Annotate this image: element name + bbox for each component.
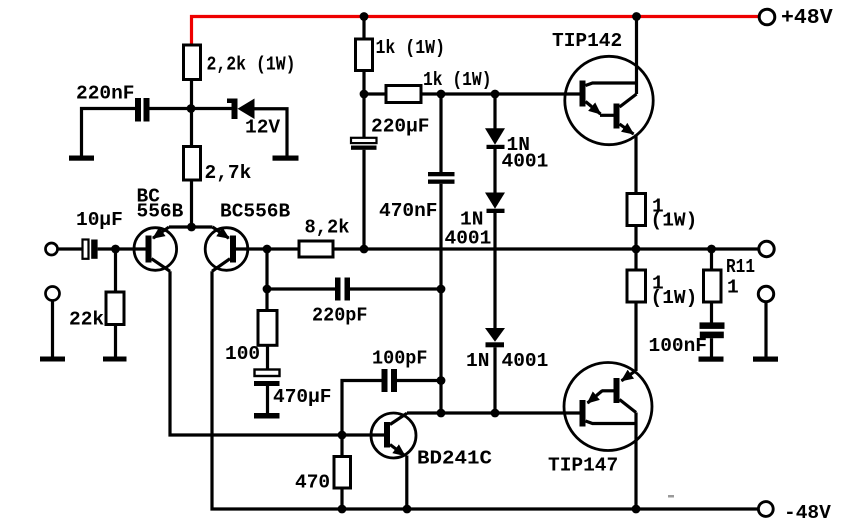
wire D1 to D2 — [493, 149, 496, 193]
wire BD241C collector to bias net — [407, 411, 580, 414]
wire zener to ground — [255, 109, 288, 156]
wire BD241C emitter down — [405, 456, 408, 510]
svg-text:470: 470 — [295, 472, 330, 494]
node output left junction — [632, 245, 641, 254]
ground under 100nF — [699, 357, 724, 362]
svg-text:12V: 12V — [245, 117, 280, 139]
wire terminal to ground — [764, 301, 767, 357]
resistor 1k (1W) vertical — [356, 39, 373, 71]
terminal -48V — [758, 502, 773, 517]
capacitor 470nF — [428, 172, 455, 176]
+48V red supply rail — [192, 17, 760, 46]
artifact dash — [668, 495, 674, 498]
svg-text:TIP147: TIP147 — [548, 455, 618, 477]
node 470 resistor bottom junction — [338, 505, 347, 514]
svg-text:1k (1W): 1k (1W) — [376, 37, 446, 59]
wire 470 resistor bottom — [340, 488, 343, 509]
svg-text:220nF: 220nF — [76, 83, 135, 105]
svg-text:(1W): (1W) — [651, 287, 698, 309]
node input junction — [111, 245, 120, 254]
svg-text:470µF: 470µF — [273, 386, 332, 408]
svg-text:BC556B: BC556B — [220, 201, 291, 223]
node emitter tail junction — [187, 223, 196, 232]
wire 470uF to ground — [266, 386, 269, 413]
wire TIP142 emitter — [634, 135, 637, 194]
svg-text:1k (1W): 1k (1W) — [423, 69, 492, 91]
wire feedback column — [265, 249, 268, 311]
transistor Q1 BC556B — [134, 228, 177, 271]
node 220uF junction — [360, 245, 369, 254]
wire 100 to 470uF — [266, 345, 269, 370]
terminal +48V — [759, 9, 775, 25]
wire TIP142 collector — [635, 17, 638, 95]
svg-text:+48V: +48V — [781, 6, 833, 30]
wire 100nF to ground — [710, 338, 713, 356]
node diode string top junction — [491, 90, 500, 99]
capacitor 220uF polarized — [351, 138, 377, 143]
wire 470nF column lower — [439, 184, 442, 413]
resistor 1 (1W) lower — [627, 270, 646, 302]
wire 470 resistor top — [340, 435, 343, 457]
wire Q1 collector down to BD241C base — [170, 271, 384, 435]
wire 22k to ground — [114, 325, 117, 357]
wire 220pF right — [350, 287, 441, 290]
capacitor 220nF — [135, 98, 141, 122]
transistor TIP142 darlington — [565, 56, 653, 144]
wire junction to 22k — [114, 249, 117, 292]
wire 1 (1W) lower to TIP147 emitter — [634, 302, 637, 371]
wire R11 to 100nF — [710, 302, 713, 323]
wire 220uF to output net — [362, 150, 365, 249]
zener diode 12V — [238, 99, 255, 120]
wire D2 to D3 — [493, 213, 496, 329]
capacitor 100pF — [382, 369, 388, 392]
svg-text:100nF: 100nF — [649, 335, 708, 357]
transistor BD241C — [371, 413, 416, 458]
svg-text:4001: 4001 — [502, 350, 549, 372]
node TIP147 collector junction — [632, 505, 641, 514]
node Q2 base junction — [263, 245, 272, 254]
resistor R11 1 — [704, 270, 722, 302]
wire 220nF to ground — [82, 109, 136, 156]
ground under zener — [273, 156, 299, 161]
resistor 470 — [334, 457, 351, 489]
svg-text:4001: 4001 — [445, 228, 492, 250]
wire 1k node to 220uF — [362, 94, 365, 138]
ground under speaker return — [753, 357, 778, 362]
ground under 22k — [103, 357, 127, 362]
transistor Q2 BC556B — [205, 228, 248, 271]
wire 1k horizontal to TIP142 base — [421, 92, 580, 95]
capacitor 220pF — [335, 278, 341, 301]
svg-text:R11: R11 — [726, 256, 755, 278]
node R11 junction — [707, 245, 716, 254]
svg-text:22k: 22k — [69, 309, 104, 331]
junction on rail at 1k resistor — [360, 12, 369, 21]
wire Q2 base to 8,2k — [236, 247, 299, 250]
ground under input return — [40, 357, 65, 362]
svg-text:100pF: 100pF — [372, 348, 428, 370]
wire 220pF left — [267, 287, 335, 290]
wire TIP147 collector — [634, 413, 637, 510]
node 470 resistor top junction — [338, 431, 347, 440]
svg-text:2,7k: 2,7k — [205, 162, 252, 184]
wire node to zener — [192, 107, 232, 110]
node bias junction — [187, 104, 196, 113]
node 100pF right junction — [437, 376, 446, 385]
wire 1k to node — [362, 71, 365, 95]
node 470nF top junction — [437, 90, 446, 99]
wire diode string upper — [493, 94, 496, 129]
wire main output net — [333, 247, 760, 250]
svg-text:8,2k: 8,2k — [305, 217, 350, 239]
svg-text:(1W): (1W) — [651, 210, 698, 232]
resistor 8,2k — [299, 241, 333, 257]
terminal input — [46, 243, 58, 255]
diode D3 1N4001 — [485, 328, 505, 342]
wire terminal to ground — [51, 301, 54, 357]
terminal input return — [46, 287, 60, 301]
resistor 1k (1W) horizontal — [386, 86, 421, 103]
ground under 220nF — [69, 156, 94, 161]
node diode bottom junction — [491, 409, 500, 418]
wire 2,7k to emitter tail — [190, 180, 193, 227]
svg-text:470nF: 470nF — [379, 200, 438, 222]
resistor 22k — [106, 292, 124, 325]
wire 1 (1W) upper to output — [634, 226, 637, 250]
svg-text:100: 100 — [225, 343, 260, 365]
node BD241C emitter junction — [403, 505, 412, 514]
resistor 1 (1W) upper — [627, 194, 646, 226]
svg-text:1N: 1N — [466, 350, 489, 372]
ground under 470uF — [254, 413, 280, 419]
wire 10uF to base Q1 — [98, 247, 146, 250]
diode D2 1N4001 — [485, 193, 505, 209]
resistor 2,7k — [184, 147, 201, 181]
transistor TIP147 darlington — [564, 363, 652, 451]
capacitor 470uF polarized — [255, 370, 280, 377]
node VAS collector junction — [437, 409, 446, 418]
svg-text:220pF: 220pF — [312, 305, 368, 327]
terminal speaker return — [758, 286, 773, 301]
wire emitter link — [169, 225, 213, 228]
svg-text:BD241C: BD241C — [417, 448, 492, 470]
capacitor 10uF polarized — [83, 240, 89, 259]
diode D1 1N4001 — [485, 128, 505, 145]
resistor 100 — [258, 311, 277, 346]
wire node to 220nF — [150, 107, 192, 110]
node 1k junction — [360, 90, 369, 99]
svg-text:220µF: 220µF — [371, 116, 430, 138]
wire node to 1k horizontal — [364, 92, 386, 95]
wire Q2 collector down to bottom rail — [212, 271, 759, 509]
wire 470nF column upper — [439, 94, 442, 172]
wire 100pF left leg — [342, 381, 382, 436]
node 220pF junction left — [263, 285, 272, 294]
junction on rail at TIP142 collector — [632, 12, 641, 21]
wire D3 to TIP147 base net — [493, 347, 496, 413]
svg-text:1: 1 — [727, 277, 739, 299]
svg-text:10µF: 10µF — [76, 209, 123, 231]
terminal output — [759, 241, 774, 256]
node 220pF junction right — [437, 285, 446, 294]
wire 100pF right leg — [397, 379, 441, 382]
svg-text:2,2k (1W): 2,2k (1W) — [207, 54, 296, 76]
wire rail to 1k — [362, 17, 365, 40]
svg-text:556B: 556B — [137, 201, 184, 223]
wire input to 10uF — [58, 247, 83, 250]
svg-text:TIP142: TIP142 — [552, 30, 622, 52]
wire 2,2k to bias node — [190, 80, 193, 147]
svg-text:4001: 4001 — [502, 151, 549, 173]
resistor 2,2k (1W) — [184, 45, 201, 80]
wire output to 1 (1W) lower — [634, 249, 637, 270]
wire R11 top — [710, 249, 713, 270]
svg-text:-48V: -48V — [784, 502, 831, 524]
capacitor 100nF — [700, 322, 725, 329]
